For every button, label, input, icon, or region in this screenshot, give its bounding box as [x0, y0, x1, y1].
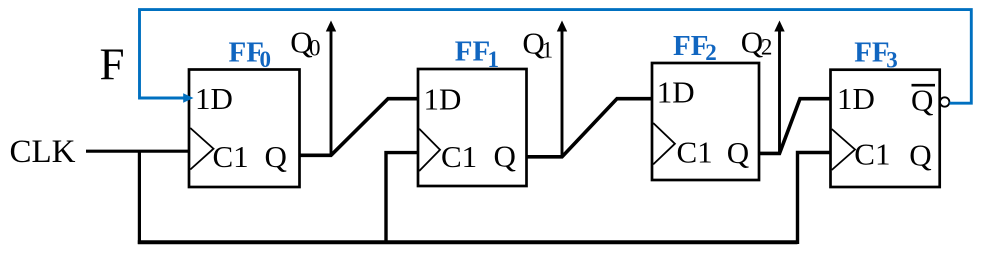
svg-text:2: 2 [705, 40, 717, 65]
wire clock bottom rail [138, 240, 798, 244]
svg-text:C1: C1 [213, 139, 249, 174]
wire output arrow Q2 [778, 30, 781, 154]
svg-text:F: F [100, 40, 125, 90]
svg-text:1D: 1D [657, 75, 695, 110]
svg-text:CLK: CLK [10, 134, 76, 170]
FF1 clock triangle [419, 129, 440, 171]
svg-text:Q: Q [911, 83, 933, 118]
svg-text:FF: FF [673, 30, 708, 62]
arrowhead into 1D of FF0 [183, 93, 193, 103]
svg-text:2: 2 [761, 35, 773, 60]
svg-text:C1: C1 [441, 139, 477, 174]
wire output arrow Q1 [561, 30, 564, 157]
FF2 clock triangle [653, 123, 675, 164]
svg-text:1D: 1D [837, 81, 875, 116]
wire FF1 Q to FF2 1D [527, 99, 653, 157]
FF0 clock triangle [190, 128, 213, 170]
svg-text:0: 0 [260, 47, 272, 72]
flip-flop FF2 box [652, 63, 759, 180]
svg-text:C1: C1 [677, 134, 713, 169]
svg-text:3: 3 [886, 48, 898, 73]
svg-text:Q: Q [265, 139, 287, 174]
svg-text:1D: 1D [195, 81, 233, 116]
svg-text:1: 1 [488, 47, 500, 72]
svg-text:Q: Q [727, 135, 749, 170]
wire clock riser to FF3 C1 [798, 153, 831, 245]
svg-text:1D: 1D [424, 82, 462, 117]
svg-text:Q: Q [494, 138, 516, 173]
flip-flop FF0 box [189, 70, 300, 188]
wire clock riser to FF1 C1 [386, 153, 418, 244]
FF3 output bubble [940, 97, 949, 106]
svg-text:C1: C1 [854, 137, 890, 172]
svg-text:Q: Q [909, 137, 931, 172]
FF3 clock triangle [832, 129, 855, 170]
svg-text:0: 0 [309, 36, 321, 61]
wire blue feedback net F [140, 10, 972, 104]
svg-text:Q: Q [741, 25, 763, 60]
wire FF2 Q to FF3 1D [759, 99, 831, 154]
svg-text:1: 1 [542, 37, 554, 62]
wire output arrow Q0 [330, 30, 333, 156]
wire CLK horizontal [86, 150, 190, 153]
flip-flop FF1 box [418, 69, 527, 186]
flip-flop FF3 box [831, 70, 940, 187]
wire FF0 Q to FF1 1D [300, 99, 419, 156]
svg-text:FF: FF [854, 36, 889, 68]
svg-text:FF: FF [455, 36, 490, 68]
wire CLK riser to bottom rail [138, 151, 141, 244]
